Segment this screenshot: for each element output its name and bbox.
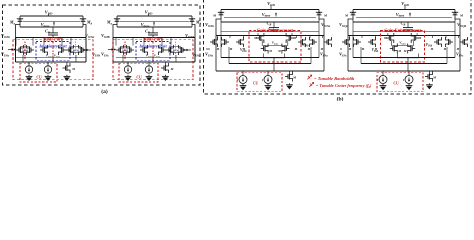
svg-text:VOQa: VOQa <box>339 22 349 28</box>
left cluster drain stubs <box>217 36 219 39</box>
svg-text:M: M <box>403 49 407 53</box>
svg-text:CR: CR <box>45 29 50 35</box>
red dashed box current unit <box>377 73 423 92</box>
nmos M4b <box>131 49 134 51</box>
wire mesh verticals <box>352 22 354 58</box>
Vtune arrow <box>275 13 277 16</box>
red dashed tuning marker imaginary pair <box>152 42 154 59</box>
ground under Mc2 <box>164 75 166 77</box>
ground under Mc1 <box>66 75 68 77</box>
pmos M7b <box>318 10 320 13</box>
red dashed box current unit <box>119 63 158 82</box>
red dashed tuning marker right pair <box>75 42 77 60</box>
wire source rail upper <box>16 56 86 58</box>
gain box tail wire <box>397 54 418 58</box>
svg-text:M: M <box>459 14 464 18</box>
ground under Mc4 <box>428 83 430 85</box>
transistor pair labels M4a M4b <box>120 47 130 53</box>
current source IB5 <box>242 71 244 76</box>
svg-text:I: I <box>376 78 379 82</box>
current source IB4 <box>148 62 150 67</box>
transistor pair labels M6a M6b <box>171 47 181 53</box>
Vtune arrow <box>53 22 55 25</box>
lower rail wire <box>221 31 319 33</box>
wire tail bus <box>113 61 195 63</box>
wire drain rail <box>20 26 83 28</box>
red dashed box Gain Enhancement <box>249 31 301 63</box>
pmos M7a <box>220 10 222 13</box>
svg-text:VINb: VINb <box>302 43 309 48</box>
pmos Mb <box>82 16 84 19</box>
legend tunable bandwidth arrow <box>307 76 311 80</box>
gate rail wire <box>356 16 452 18</box>
nmos Mg2 <box>291 37 294 39</box>
ground under IB8 <box>408 84 410 86</box>
svg-text:M M: M M <box>72 48 79 52</box>
current source IB2 <box>47 62 49 67</box>
wire left branch <box>112 37 114 62</box>
pmos M8b <box>454 10 456 13</box>
svg-text:M: M <box>456 47 460 51</box>
nmos Mc3 tail transistor <box>288 71 290 74</box>
svg-text:VINd: VINd <box>426 43 433 48</box>
nmos Mc4 tail transistor <box>428 71 430 74</box>
nmos Mg8 <box>412 48 415 50</box>
svg-text:CR: CR <box>267 21 272 27</box>
ground under IB1 <box>28 75 30 77</box>
svg-text:CR: CR <box>145 29 150 35</box>
pmos Ma <box>19 16 21 19</box>
wire right branch <box>85 37 87 62</box>
transistor pair labels M3a M3b <box>71 47 81 53</box>
nmos M1b <box>31 49 34 51</box>
svg-text:M: M <box>292 36 296 40</box>
svg-text:M: M <box>398 49 402 53</box>
gate rail wire <box>224 16 316 18</box>
current source IB6 <box>267 71 269 76</box>
svg-text:VOPa: VOPa <box>1 33 10 39</box>
red dashed tuning marker left pair <box>24 42 26 60</box>
gain cross wires <box>261 41 263 46</box>
right cluster drain stubs <box>296 36 298 39</box>
left transistor cluster <box>210 41 213 43</box>
wire cluster tails <box>122 55 124 62</box>
ground under IB5 <box>242 84 244 86</box>
svg-text:M: M <box>292 76 296 80</box>
wire right branch <box>194 37 196 62</box>
nmos M4a <box>116 49 119 51</box>
svg-text:CU: CU <box>36 76 42 80</box>
right transistor cluster <box>298 41 301 43</box>
wire lower mesh 1 <box>353 57 455 59</box>
svg-text:VONb: VONb <box>185 33 195 39</box>
svg-text:M: M <box>443 47 447 51</box>
svg-text:= Tunable Center frequency (f0: = Tunable Center frequency (f0) <box>316 83 372 89</box>
svg-text:Gain Enhancement: Gain Enhancement <box>257 28 294 33</box>
svg-text:M: M <box>344 14 349 18</box>
svg-text:VINa: VINa <box>205 52 214 58</box>
nmos M6b <box>183 49 186 51</box>
svg-text:VONa: VONa <box>85 33 95 39</box>
wire drain rail <box>117 26 192 28</box>
svg-text:Mb: Mb <box>195 20 202 26</box>
red dashed tuning marker right pair <box>175 42 177 60</box>
left transistor cluster <box>342 41 345 43</box>
svg-text:M: M <box>268 49 272 53</box>
gain pair drain stubs <box>387 33 389 36</box>
svg-text:Gain Enhancement: Gain Enhancement <box>384 28 421 33</box>
svg-text:M: M <box>253 36 257 40</box>
current source IB1 <box>28 62 30 67</box>
nmos M2b <box>63 49 66 51</box>
svg-text:Vtune: Vtune <box>262 12 271 18</box>
pmos Md <box>191 16 193 19</box>
cell I-path biquad: VDD rail <box>20 15 83 17</box>
current source IB8 <box>408 71 410 76</box>
svg-text:I: I <box>261 78 264 82</box>
svg-text:VINa: VINa <box>1 52 10 58</box>
drain rail wire <box>353 21 455 23</box>
ground under IB6 <box>267 84 269 86</box>
nmos Mg5 <box>386 37 389 39</box>
nmos M5a <box>140 49 143 51</box>
wire gate rail <box>120 20 189 22</box>
right cluster drain stubs <box>432 36 434 39</box>
VDD rail <box>221 9 319 11</box>
red dashed tuning marker left pair <box>124 42 126 60</box>
svg-text:Vtune: Vtune <box>396 12 405 18</box>
nmos M2a <box>40 49 43 51</box>
svg-text:(b): (b) <box>337 95 344 101</box>
outer dashed box (a) enclosing quadrature biquad cells <box>3 5 201 85</box>
svg-text:M: M <box>170 67 174 71</box>
pmos M8a <box>352 10 354 13</box>
nmos Mg6 <box>416 37 419 39</box>
nmos Mg3 <box>261 48 264 50</box>
right transistor cluster <box>434 41 437 43</box>
gain cross wires <box>390 41 392 46</box>
nmos Mg4 <box>286 48 289 50</box>
wire lower mesh 1 <box>221 57 319 59</box>
wire left branch <box>15 37 17 62</box>
ground under IB4 <box>148 75 150 77</box>
svg-text:M: M <box>348 47 352 51</box>
capacitor CR4 <box>407 22 409 27</box>
red dashed box current unit <box>20 63 57 82</box>
wire gate rail <box>23 20 80 22</box>
svg-text:CR: CR <box>401 21 406 27</box>
nmos M6a <box>166 49 169 51</box>
ground under IB2 <box>47 75 49 77</box>
blue dashed box Imaginary Part <box>36 42 70 61</box>
wire tail bus <box>16 61 87 63</box>
svg-text:Vtune: Vtune <box>272 40 280 45</box>
wire output node rail <box>216 35 324 37</box>
blue dashed box Imaginary Part <box>136 42 170 61</box>
svg-text:CU: CU <box>253 82 259 86</box>
nmos M5b <box>163 49 166 51</box>
svg-text:M: M <box>320 47 324 51</box>
svg-text:Vtune: Vtune <box>399 40 407 45</box>
wire cluster tails <box>22 55 24 62</box>
pmos Mc <box>116 16 118 19</box>
left cluster drain stubs <box>349 36 351 39</box>
Vtune arrow <box>153 22 155 25</box>
svg-text:VINc: VINc <box>101 52 110 58</box>
Vtune arrow <box>409 13 411 16</box>
lower rail wire <box>353 31 455 33</box>
svg-text:M: M <box>212 14 217 18</box>
red dashed tuning marker imaginary pair <box>52 42 54 59</box>
svg-text:VOPa: VOPa <box>205 22 214 28</box>
svg-text:M M: M M <box>121 48 128 52</box>
svg-text:Mb: Mb <box>86 20 93 26</box>
svg-text:Ma: Ma <box>9 20 16 26</box>
wire output rail <box>16 36 87 38</box>
wire source rail upper <box>116 56 186 58</box>
svg-text:CU: CU <box>393 82 399 86</box>
nmos Mg1 <box>256 37 259 39</box>
svg-text:M: M <box>216 47 220 51</box>
svg-text:CU: CU <box>136 76 142 80</box>
svg-text:M: M <box>432 76 436 80</box>
nmos Mc2 tail transistor <box>164 62 166 65</box>
legend tunable center frequency arrow <box>309 83 313 87</box>
svg-text:M: M <box>294 47 298 51</box>
svg-text:M: M <box>323 14 328 18</box>
current source IB7 <box>382 71 384 76</box>
nmos Mc1 tail transistor <box>66 62 68 65</box>
red dashed box current unit <box>237 73 282 92</box>
nmos Mg7 <box>390 48 393 50</box>
wire drain stubs <box>15 37 17 45</box>
nmos M3b <box>83 49 86 51</box>
tail bus wire <box>216 70 324 72</box>
tail bus wire <box>348 70 460 72</box>
svg-text:M M: M M <box>172 48 179 52</box>
svg-text:I: I <box>402 78 405 82</box>
svg-text:VONa: VONa <box>321 22 331 28</box>
svg-text:VOPb: VOPb <box>101 33 110 39</box>
svg-text:M: M <box>417 36 421 40</box>
capacitor CR3 <box>273 22 275 27</box>
outer dashed box (b) enclosing gain-enhanced cells <box>204 0 472 94</box>
gain box tail wire <box>263 54 284 58</box>
svg-text:VINc: VINc <box>339 52 348 58</box>
svg-text:M: M <box>71 67 75 71</box>
drain rail wire <box>221 21 319 23</box>
nmos M3a <box>66 49 69 51</box>
wire lower mesh 2 <box>361 63 447 65</box>
ground under IB3 <box>127 75 129 77</box>
svg-text:M: M <box>383 36 387 40</box>
ground under IB7 <box>382 84 384 86</box>
nmos M1a <box>16 49 19 51</box>
red dashed box Gain Enhancement <box>381 31 425 63</box>
red dashed box Real Part <box>13 40 93 80</box>
capacitor CR2 <box>152 27 154 33</box>
svg-text:VOQb: VOQb <box>457 22 467 28</box>
svg-text:M: M <box>277 49 281 53</box>
svg-text:(a): (a) <box>101 88 108 95</box>
svg-text:Ma: Ma <box>106 20 113 26</box>
wire output node rail <box>348 35 460 37</box>
wire output rail <box>113 36 195 38</box>
capacitor CR <box>52 27 54 33</box>
svg-text:= Tunable Bandwidth: = Tunable Bandwidth <box>314 76 355 81</box>
cell Q-path biquad: VDD rail <box>117 15 192 17</box>
ground under Mc3 <box>288 83 290 85</box>
red dashed box Real Part <box>113 40 193 80</box>
wire mesh verticals <box>220 22 222 58</box>
transistor pair labels M1a M1b <box>20 47 30 53</box>
current source IB3 <box>127 62 129 67</box>
svg-text:I: I <box>236 78 239 82</box>
wire drain stubs <box>115 37 117 45</box>
VDD rail <box>353 9 455 11</box>
gain pair drain stubs <box>257 33 259 36</box>
wire lower mesh 2 <box>229 63 311 65</box>
svg-text:M M: M M <box>21 48 28 52</box>
